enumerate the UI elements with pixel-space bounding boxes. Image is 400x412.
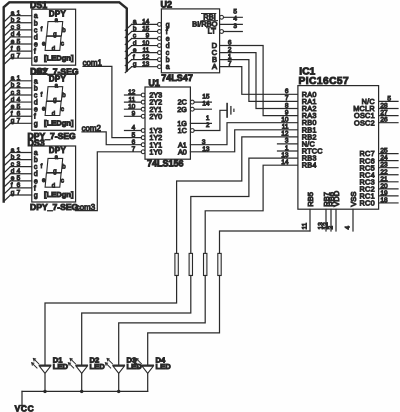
svg-text:[LEDgn]: [LEDgn] [44, 118, 74, 127]
svg-text:b: b [11, 82, 15, 89]
svg-text:5: 5 [387, 95, 391, 102]
svg-text:f: f [11, 111, 13, 118]
svg-text:U1: U1 [148, 78, 160, 88]
svg-text:7: 7 [17, 189, 21, 196]
svg-text:g: g [133, 61, 137, 68]
svg-text:1: 1 [17, 75, 21, 82]
svg-text:g: g [34, 192, 38, 199]
svg-text:DS2: DS2 [30, 66, 47, 76]
svg-text:5: 5 [132, 132, 136, 139]
svg-text:b: b [62, 28, 66, 34]
svg-text:7: 7 [132, 146, 136, 153]
svg-text:e: e [34, 107, 38, 114]
svg-text:3: 3 [17, 89, 21, 96]
svg-text:b: b [34, 20, 38, 27]
svg-text:d: d [11, 96, 15, 103]
svg-text:DS1: DS1 [30, 0, 47, 10]
svg-text:1Y0: 1Y0 [149, 147, 162, 156]
svg-text:d: d [133, 40, 137, 47]
svg-text:a: a [11, 147, 15, 154]
svg-text:2: 2 [17, 17, 21, 24]
svg-text:g: g [53, 32, 56, 38]
svg-text:20: 20 [380, 183, 388, 190]
svg-text:f: f [166, 29, 168, 36]
svg-text:14: 14 [142, 19, 150, 26]
svg-text:15: 15 [202, 94, 210, 101]
svg-text:4: 4 [17, 168, 21, 175]
svg-text:f: f [41, 27, 43, 33]
svg-text:d: d [11, 168, 15, 175]
svg-text:12: 12 [142, 54, 150, 61]
svg-text:e: e [11, 175, 15, 182]
svg-text:LED: LED [53, 362, 69, 371]
svg-text:6: 6 [132, 139, 136, 146]
svg-text:3: 3 [233, 23, 237, 30]
svg-text:g: g [11, 189, 15, 196]
svg-text:f: f [11, 182, 13, 189]
svg-text:7: 7 [17, 118, 21, 125]
svg-text:11: 11 [143, 47, 150, 54]
svg-text:DS3: DS3 [28, 138, 45, 148]
svg-text:c: c [61, 179, 64, 185]
svg-text:RB4: RB4 [302, 161, 317, 170]
svg-text:DPY_7-SEG: DPY_7-SEG [30, 202, 79, 212]
svg-text:6: 6 [17, 45, 21, 52]
svg-text:a: a [34, 78, 38, 85]
svg-text:[LEDgn]: [LEDgn] [44, 53, 74, 62]
svg-text:a: a [11, 75, 15, 82]
svg-text:6: 6 [285, 88, 289, 95]
svg-text:c: c [34, 164, 38, 171]
svg-text:f: f [34, 185, 36, 192]
svg-text:10: 10 [281, 116, 289, 123]
svg-text:74LS47: 74LS47 [161, 73, 193, 83]
svg-text:b: b [11, 154, 15, 161]
svg-text:OSC2: OSC2 [354, 118, 375, 127]
svg-text:c: c [34, 27, 38, 34]
svg-text:d: d [34, 100, 38, 107]
svg-text:74LS156: 74LS156 [147, 158, 184, 168]
svg-text:24: 24 [380, 155, 388, 162]
svg-text:g: g [11, 52, 15, 59]
svg-text:3: 3 [17, 24, 21, 31]
svg-text:a: a [11, 10, 15, 17]
svg-text:2Y0: 2Y0 [149, 112, 162, 121]
svg-text:7: 7 [285, 95, 289, 102]
svg-text:2G: 2G [177, 105, 187, 114]
svg-text:e: e [166, 36, 170, 43]
svg-text:14: 14 [202, 101, 210, 108]
svg-text:2: 2 [328, 226, 335, 230]
svg-text:6: 6 [17, 111, 21, 118]
svg-text:1C: 1C [178, 126, 187, 135]
svg-text:9: 9 [146, 33, 150, 40]
svg-text:b: b [34, 85, 38, 92]
svg-text:f: f [11, 45, 13, 52]
svg-text:25: 25 [380, 148, 388, 155]
svg-text:LED: LED [156, 362, 172, 371]
svg-text:1: 1 [206, 115, 210, 122]
svg-text:c: c [61, 107, 64, 113]
svg-text:27: 27 [380, 110, 388, 117]
svg-text:d: d [34, 34, 38, 41]
svg-text:28: 28 [380, 103, 388, 110]
svg-text:10: 10 [142, 40, 150, 47]
svg-text:5: 5 [17, 175, 21, 182]
svg-text:g: g [53, 169, 56, 175]
svg-text:a: a [34, 13, 38, 20]
svg-text:3: 3 [17, 161, 21, 168]
svg-text:DPY: DPY [49, 146, 67, 155]
svg-text:VSS: VSS [349, 192, 358, 207]
svg-text:b: b [34, 157, 38, 164]
svg-text:RB5: RB5 [306, 192, 315, 207]
svg-text:1: 1 [17, 147, 21, 154]
svg-text:d: d [166, 43, 170, 50]
svg-text:a: a [34, 150, 38, 157]
svg-text:d: d [52, 183, 55, 189]
svg-text:g: g [34, 121, 38, 128]
svg-text:U2: U2 [161, 0, 173, 9]
svg-text:LED: LED [90, 362, 106, 371]
svg-text:e: e [34, 178, 38, 185]
svg-text:A0: A0 [178, 147, 187, 156]
svg-text:[LEDgn]: [LEDgn] [44, 190, 74, 199]
svg-text:5: 5 [17, 103, 21, 110]
svg-text:DPY: DPY [49, 9, 67, 18]
svg-text:1: 1 [17, 10, 21, 17]
svg-text:d: d [34, 171, 38, 178]
svg-text:c: c [166, 50, 170, 57]
svg-text:4: 4 [17, 96, 21, 103]
svg-text:e: e [11, 38, 15, 45]
svg-text:6: 6 [17, 182, 21, 189]
svg-text:19: 19 [380, 190, 388, 197]
svg-text:c: c [61, 42, 64, 48]
svg-text:9: 9 [285, 109, 289, 116]
svg-text:26: 26 [380, 117, 388, 124]
svg-text:11: 11 [302, 222, 309, 229]
svg-text:f: f [34, 49, 36, 56]
svg-text:f: f [34, 114, 36, 121]
svg-text:21: 21 [380, 176, 388, 183]
svg-text:g: g [11, 118, 15, 125]
svg-text:11: 11 [282, 124, 289, 131]
svg-text:e: e [133, 47, 137, 54]
svg-text:b: b [133, 26, 137, 33]
svg-text:g: g [53, 97, 56, 103]
svg-text:f: f [133, 54, 135, 61]
svg-text:a: a [133, 19, 137, 26]
svg-text:g: g [34, 56, 38, 63]
svg-text:d: d [11, 31, 15, 38]
svg-text:2: 2 [17, 82, 21, 89]
svg-text:5: 5 [17, 38, 21, 45]
svg-text:a: a [166, 64, 170, 71]
svg-text:4: 4 [17, 31, 21, 38]
svg-text:PIC16C57: PIC16C57 [299, 76, 350, 87]
svg-text:e: e [11, 103, 15, 110]
svg-text:7: 7 [17, 52, 21, 59]
svg-text:23: 23 [380, 162, 388, 169]
svg-text:22: 22 [380, 169, 388, 176]
svg-text:d: d [52, 47, 55, 53]
svg-text:A: A [212, 62, 217, 71]
svg-text:f: f [41, 92, 43, 98]
svg-text:VDD: VDD [332, 190, 341, 207]
svg-text:2: 2 [17, 154, 21, 161]
svg-text:b: b [166, 57, 170, 64]
svg-text:f: f [41, 164, 43, 170]
svg-text:4: 4 [233, 16, 237, 23]
svg-text:d: d [52, 112, 55, 118]
svg-text:8: 8 [285, 102, 289, 109]
svg-text:4: 4 [345, 226, 352, 230]
svg-text:18: 18 [380, 197, 388, 204]
svg-text:15: 15 [142, 26, 150, 33]
svg-text:VCC: VCC [15, 404, 35, 412]
svg-text:c: c [34, 92, 38, 99]
svg-text:b: b [62, 93, 66, 99]
svg-text:g: g [166, 22, 170, 29]
svg-text:b: b [62, 165, 66, 171]
svg-text:b: b [11, 17, 15, 24]
svg-text:2: 2 [206, 122, 210, 129]
svg-text:RC0: RC0 [360, 199, 375, 208]
svg-text:5: 5 [233, 9, 237, 16]
svg-text:e: e [34, 42, 38, 49]
svg-text:13: 13 [142, 61, 150, 68]
